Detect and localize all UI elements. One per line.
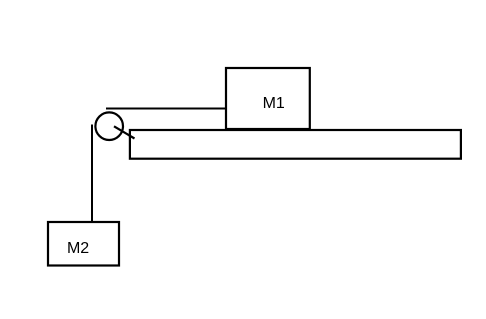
block M2 xyxy=(48,222,119,266)
string (vertical segment from pulley to M2) xyxy=(91,125,93,224)
string (horizontal segment from pulley to M1) xyxy=(106,108,227,110)
svg-text:M2: M2 xyxy=(67,240,89,257)
block M1 xyxy=(226,68,310,129)
pulley xyxy=(95,112,123,140)
table xyxy=(130,130,461,159)
pulley bracket xyxy=(114,126,135,138)
svg-text:M1: M1 xyxy=(263,95,285,112)
